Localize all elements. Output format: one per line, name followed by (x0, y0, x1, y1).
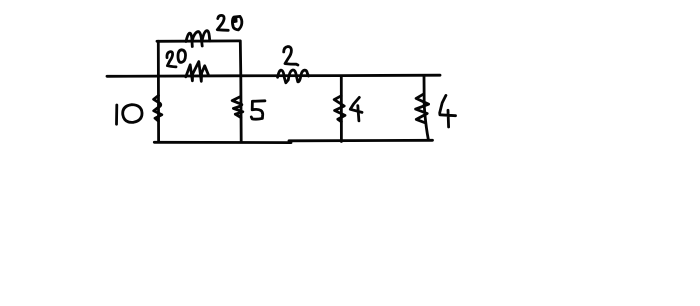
label 20 (inner) : digit 0 (178, 50, 186, 63)
resistor R_top 20 (zigzag on top edge) (186, 31, 210, 47)
wire: vertical branch 4 (4 ohm right) (424, 75, 428, 139)
label 10 : digit 1 (115, 105, 118, 124)
wire: main horizontal bus (107, 75, 440, 76)
wire: vertical branch 2 (5 ohm) (239, 76, 242, 142)
label 20 (inner) : digit 2 (167, 52, 176, 67)
resistor R2 20 (zigzag on main bus) (186, 62, 209, 82)
label 20 (top) : digit 0 (232, 16, 241, 30)
wire: bottom return line (154, 140, 432, 142)
label 4 (right) (440, 95, 456, 127)
label 20 (top) : digit 2 (217, 15, 228, 30)
wire: left edge of loop / node A (157, 41, 160, 76)
wire: vertical branch 3 (4 ohm) (340, 76, 343, 142)
resistor R3 2 (wave on main bus) (278, 70, 309, 83)
resistor R1 10 (vertical squiggle) (154, 96, 162, 122)
wire: vertical branch 1 (10 ohm) (157, 76, 160, 142)
label 5 (251, 101, 265, 119)
label 4 (left) (350, 97, 362, 120)
wire: right edge of loop (239, 41, 242, 76)
wire: parallel loop top edge (157, 40, 240, 43)
label 10 : digit 0 (123, 105, 142, 123)
label 2 (mid) (284, 47, 298, 65)
resistor R4 5 (vertical squiggle) (232, 97, 243, 118)
resistor R5 4 (vertical squiggle) (334, 96, 345, 122)
resistor R6 4 right (vertical squiggle) (416, 94, 429, 123)
